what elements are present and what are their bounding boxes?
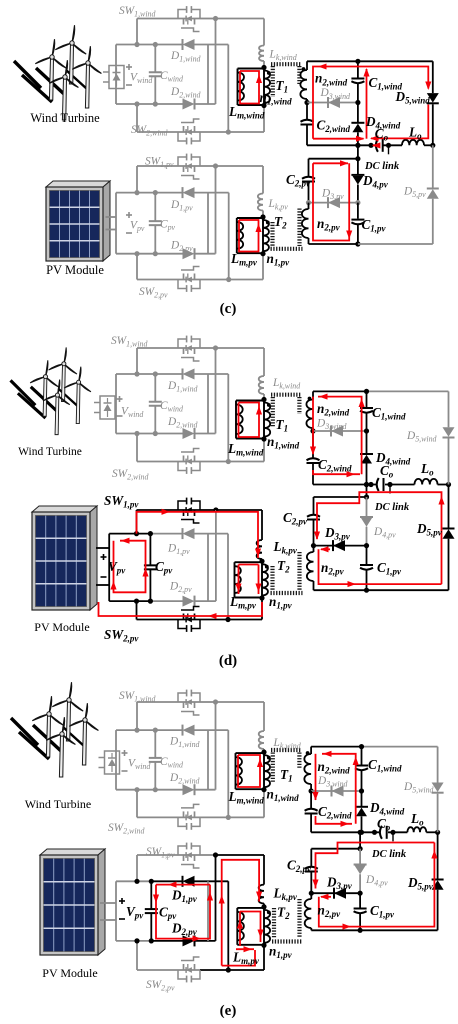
svg-text:Wind Turbine: Wind Turbine: [30, 111, 100, 125]
wire SW1 branch wind d: [136, 348, 138, 374]
wire SW2 row pv d: [137, 619, 179, 621]
capacitor C2 wind out d: [312, 431, 314, 458]
current path pv primary bottom e: [222, 950, 255, 966]
node junction pv c: [134, 251, 139, 256]
wire SW2 branch pv e: [136, 941, 138, 970]
node junction wind d: [134, 371, 139, 376]
node C1pv bottom pv out d: [364, 588, 369, 593]
wire DC rail wind out c: [307, 144, 376, 146]
node n2/D3 wind out d: [310, 428, 315, 433]
svg-text:PV Module: PV Module: [42, 966, 97, 980]
svg-text:(d): (d): [219, 653, 237, 669]
current path wind C2 loop d: [312, 397, 314, 454]
wire SW1 branch wind c: [136, 19, 138, 45]
diode D3pv pv out c: [328, 197, 340, 208]
node junction wind e: [153, 728, 158, 733]
winding n1 primary T1 e: [263, 752, 265, 790]
diode D5pv pv out c: [427, 189, 439, 199]
current path wind out loop e: [322, 754, 356, 824]
capacitor C1pv pv out e: [359, 893, 361, 907]
node junction wind d: [134, 431, 139, 436]
node primary bottom T2 c: [260, 251, 265, 256]
node Lo right wind out c: [430, 143, 435, 148]
node primary bottom T2 d: [259, 595, 264, 600]
PV module icon: [46, 181, 110, 187]
wire PV leads e: [100, 902, 116, 904]
winding n1 primary T1 d: [263, 400, 265, 440]
current path wind D4 up c: [366, 69, 368, 139]
node primary top T1 d: [261, 397, 266, 402]
node junction pv d: [148, 531, 153, 536]
diode D4pv pv out e: [359, 849, 361, 865]
wire Lk to primary T2 e: [263, 904, 265, 907]
wire left rail wind e: [115, 730, 117, 790]
wire D1-SW2 rail wind c: [227, 45, 229, 133]
node Co right wind out c: [386, 143, 391, 148]
diode D4 wind out e: [355, 806, 368, 808]
wire right rail wind d: [207, 374, 209, 434]
node junction wind e: [134, 787, 139, 792]
wire SW1 to node pv c: [200, 165, 216, 167]
node SW1/D2 junction wind e: [213, 699, 218, 704]
wire SW2 branch pv d: [136, 601, 138, 619]
inductor Lk T1 d: [259, 376, 264, 394]
node primary polarity T2 d: [265, 565, 269, 569]
inductor Lo wind out c: [402, 140, 424, 145]
diode D5pv pv out d: [443, 529, 455, 539]
transistor SW1 wind d: [178, 347, 200, 349]
wire D3 row pv pv out e: [311, 892, 360, 894]
capacitor C column wind d: [154, 374, 156, 402]
wire SW1 to node wind c: [200, 18, 216, 20]
node junction wind d: [153, 371, 158, 376]
wire DC rail wind out e: [311, 831, 379, 833]
node PV rail top pv out c: [355, 156, 360, 161]
capacitor C1pv pv out d: [366, 546, 368, 564]
node DC link stub wind out e: [392, 832, 394, 841]
transistor SW2 wind c: [178, 131, 200, 133]
node SW1/D2 junction pv e: [213, 852, 218, 857]
node primary top T2 c: [260, 214, 265, 219]
transistor SW2 pv d: [178, 619, 200, 621]
current path wind DC converge c: [373, 144, 379, 146]
wire Lk to primary T2 c: [262, 211, 264, 218]
node D4/D3 pv out d: [364, 543, 369, 548]
node D4 bottom wind out e: [359, 830, 364, 835]
node DC link stub wind out c: [388, 145, 390, 154]
wire PV bottom rail pv out e: [311, 929, 360, 931]
node Co right wind out d: [387, 482, 392, 487]
capacitor Co wind out c: [376, 139, 378, 152]
capacitor C2 wind out e: [310, 791, 312, 809]
svg-text:(e): (e): [220, 1003, 237, 1019]
wire SW2 branch wind e: [136, 790, 138, 818]
wire mid rail pv d: [215, 510, 217, 601]
capacitor C1 wind out c: [357, 61, 359, 77]
polarity marks V_wind d: [117, 398, 123, 400]
wire primary return pv c: [262, 254, 264, 280]
node n2/D3 wind out e: [309, 788, 314, 793]
node SW2 junction pv e: [226, 967, 231, 972]
node SW1/D2 junction wind d: [213, 345, 218, 350]
wire bottom cell wind d: [116, 433, 155, 435]
capacitor C2 wind out c: [306, 103, 308, 120]
polarity marks V_wind e: [122, 752, 128, 754]
node Co left wind out d: [368, 482, 373, 487]
wire D3 row pv pv out d: [314, 545, 367, 547]
wire SW1 branch pv e: [136, 855, 138, 881]
wire D1-SW2 rail pv e: [227, 881, 229, 970]
node primary polarity T1 d: [267, 403, 271, 407]
wire top rail to Lk T2 c: [216, 165, 264, 167]
current path pv cell loop e2: [156, 885, 210, 939]
wire mid rail pv c: [215, 166, 217, 254]
current loop Lm T1 d: [239, 403, 260, 438]
wire PV bottom rail pv out d: [314, 589, 367, 591]
diode D5pv pv out e: [432, 880, 444, 890]
current loop Lm T1 c: [240, 71, 259, 104]
current path pv Lm left e: [239, 912, 241, 947]
wire Lk to primary T1 d: [263, 394, 265, 400]
diode D2 wind d: [183, 428, 195, 439]
current path pv SW2 path d: [99, 602, 263, 616]
node D4/D3 pv out c: [355, 200, 360, 205]
wire top cell pv d: [109, 533, 150, 535]
wire primary return wind c: [263, 106, 265, 133]
inductor Lm magnetizing T2 d: [235, 561, 263, 563]
wire SW2 branch pv c: [136, 254, 138, 280]
current path wind out loop d: [318, 397, 362, 475]
node SW2 junction wind d: [226, 459, 231, 464]
diode D1 wind c: [183, 39, 195, 50]
wind turbine icon d: [11, 347, 91, 434]
svg-text:Wind Turbine: Wind Turbine: [18, 446, 82, 458]
node D4/D3 pv out e: [358, 891, 363, 896]
current path pv source loop d: [114, 541, 146, 593]
current path pv out loop d: [317, 492, 442, 584]
winding n1 primary T2 d: [261, 561, 263, 598]
svg-text:DC link: DC link: [371, 849, 407, 860]
inductor Lk T2 d: [257, 540, 262, 559]
diode D2 wind e: [183, 784, 195, 795]
wire PV top rail pv out d: [314, 496, 367, 498]
inductor Lk T2 c: [258, 194, 263, 211]
node primary bottom T1 d: [261, 436, 266, 441]
inductor Lm magnetizing T1 c: [238, 68, 265, 70]
transformer core T2 e: [272, 908, 276, 938]
wire mid rail wind d: [215, 348, 217, 434]
node Lo right wind out d: [446, 482, 451, 487]
node junction wind c: [153, 101, 158, 106]
node C2/D3 pv out e: [309, 891, 314, 896]
node Co left wind out e: [372, 830, 377, 835]
wire right rail pv c: [207, 193, 209, 254]
node junction wind c: [134, 101, 139, 106]
node C1 top wind out d: [364, 389, 369, 394]
wire left rail pv e: [115, 881, 117, 941]
diode D3 wind out c: [328, 97, 340, 108]
transistor SW2 pv e: [178, 969, 200, 971]
wire top cell pv c: [116, 192, 155, 194]
node SW2 junction pv d: [225, 617, 230, 622]
inductor Lm magnetizing T1 e: [236, 752, 265, 754]
wire bottom cell pv e: [116, 940, 151, 942]
capacitor C column wind e: [154, 730, 156, 758]
node PV rail top pv out d: [364, 494, 369, 499]
current path pv Lm bot e: [236, 948, 254, 950]
winding n2pv pv out d: [313, 546, 315, 552]
node junction pv c: [134, 190, 139, 195]
capacitor C1pv pv out c: [357, 203, 359, 219]
wind turbine icon: [14, 25, 101, 120]
wire left rail pv c: [115, 193, 117, 254]
node primary bottom T1 e: [261, 787, 266, 792]
diode D5 wind out d: [443, 427, 455, 437]
transistor SW1 pv c: [178, 165, 200, 167]
capacitor C column pv d: [149, 534, 151, 566]
wire right rail wind out d: [448, 391, 450, 427]
wire primary return pv d: [261, 598, 263, 620]
wire DC to PV rail pv out e: [359, 832, 361, 848]
node C1/D3 wind out e: [359, 788, 364, 793]
node primary top T2 d: [259, 559, 264, 564]
node SW1/D2 junction wind c: [213, 16, 218, 21]
wire PV top rail pv out e: [311, 848, 360, 850]
svg-text:DC link: DC link: [374, 502, 410, 513]
node Co left wind out c: [368, 143, 373, 148]
node primary bottom T1 c: [261, 103, 266, 108]
node junction pv e: [134, 879, 139, 884]
node C1pv bottom pv out c: [355, 241, 360, 246]
capacitor C1 wind out d: [366, 391, 368, 407]
wire D3 row wind out c: [307, 102, 358, 104]
current path pv Lm loop e: [240, 912, 261, 943]
current path pv n1 down d: [258, 565, 260, 595]
node D4 bottom wind out c: [355, 143, 360, 148]
diode D4pv pv out c: [357, 159, 359, 175]
wire PV right rail pv out c: [432, 199, 434, 244]
wire SW1 to node wind e: [200, 701, 216, 703]
winding n1 primary T1 c: [263, 68, 265, 106]
wire bottom cell wind c: [116, 103, 155, 105]
svg-text:(c): (c): [220, 301, 237, 317]
svg-text:PV Module: PV Module: [34, 620, 89, 634]
wire SW1 to node pv e: [200, 854, 216, 856]
diode D4 wind out d: [360, 453, 373, 455]
winding n1 primary T2 c: [262, 217, 264, 254]
wire Lk to primary T1 e: [263, 749, 265, 752]
diode D4pv pv out d: [366, 497, 368, 517]
capacitor C1 wind out e: [361, 747, 363, 765]
current path pv SW1 path d: [137, 512, 259, 558]
wire DC rail wind out d: [313, 484, 376, 486]
current path wind C2 bottom d: [313, 470, 360, 474]
capacitor C column pv e: [150, 881, 152, 909]
wire SW2 branch wind d: [136, 434, 138, 462]
wire mid rail wind c: [215, 19, 217, 105]
polarity marks V_pv d: [101, 556, 107, 558]
wind turbine icon e: [11, 682, 98, 777]
wire SW2 branch wind c: [136, 104, 138, 132]
wire bottom cell pv d: [109, 600, 150, 602]
wire DC to PV rail pv out c: [357, 145, 359, 158]
wire primary return pv e: [263, 945, 265, 970]
wire top rail to Lk T2 d: [216, 509, 262, 511]
current loop Lm T1 e: [238, 755, 260, 787]
winding n2 secondary wind out e: [310, 747, 312, 754]
inductor Lm magnetizing T1 d: [236, 400, 264, 402]
diode D5 wind out e: [432, 783, 444, 793]
winding n2 secondary wind out d: [312, 391, 314, 399]
transformer core T2 c: [270, 222, 274, 246]
node primary bottom T2 e: [261, 943, 266, 948]
node Lo right wind out e: [435, 830, 440, 835]
wire PV bottom rail pv out c: [309, 243, 358, 245]
wire D3 row wind out d: [313, 430, 367, 432]
node D4 bottom wind out d: [364, 482, 369, 487]
transistor SW1 pv d: [178, 509, 200, 511]
current path wind C2 bot e: [316, 816, 353, 824]
node junction pv c: [153, 251, 158, 256]
wire SW2 row wind d: [137, 461, 178, 463]
current path pv out loop c right: [313, 163, 349, 240]
node C2/D3 pv out c: [306, 200, 311, 205]
winding n2pv pv out c: [308, 203, 310, 209]
inductor Lm magnetizing T2 c: [237, 217, 263, 219]
transistor SW2 wind e: [178, 816, 200, 818]
wire DC to PV rail pv out d: [366, 485, 368, 498]
node junction wind c: [153, 42, 158, 47]
current path pv n2 red e: [319, 843, 435, 927]
node junction pv e: [134, 938, 139, 943]
node primary polarity T1 c: [267, 71, 271, 75]
current path wind C2 to D4 c: [313, 138, 364, 140]
node junction pv d: [134, 531, 139, 536]
rectifier box wind d: [100, 396, 115, 419]
node Co right wind out e: [390, 830, 395, 835]
node junction wind c: [134, 42, 139, 47]
inductor Lo wind out d: [415, 479, 438, 485]
diode D1 wind e: [183, 725, 195, 736]
node C1pv bottom pv out e: [358, 928, 363, 933]
diode D2 pv d: [183, 596, 195, 607]
node n2 polarity wind out c: [302, 67, 306, 71]
wire top rail to Lk T1 e: [216, 701, 265, 703]
wire SW2 row pv c: [137, 279, 178, 281]
diode D1 wind d: [183, 369, 195, 380]
wire left rail pv d: [108, 534, 110, 602]
node junction wind e: [134, 728, 139, 733]
wire top cell wind d: [116, 373, 155, 375]
wire mid rail wind e: [215, 702, 217, 790]
transistor SW1 pv e: [178, 854, 200, 856]
polarity marks V_pv c: [126, 214, 132, 216]
node primary top T1 c: [261, 65, 266, 70]
wire SW2 row pv e: [137, 969, 178, 971]
winding n1 primary T2 e: [263, 907, 265, 945]
current path wind out loop c: [313, 67, 428, 139]
capacitor C2pv pv out d: [313, 497, 315, 515]
node primary top T2 e: [261, 904, 266, 909]
inductor Lk T1 c: [259, 46, 264, 62]
inductor Lm magnetizing T2 e: [237, 907, 264, 909]
wire Lk to primary T1 c: [263, 61, 265, 68]
node primary polarity T2 c: [266, 221, 270, 225]
wire output top rail wind out d: [313, 390, 367, 392]
wire SW1 branch wind e: [136, 702, 138, 730]
node SW1/D2 junction pv d: [213, 507, 218, 512]
transformer core T1 c: [271, 66, 275, 97]
wire output top rail wind out c: [307, 60, 358, 62]
wire PV right rail pv out e: [437, 890, 439, 931]
current path pv Lm top link d: [239, 564, 259, 566]
wire D1-SW2 rail wind d: [227, 374, 229, 462]
wire bottom cell wind e: [116, 789, 155, 791]
transistor SW1 wind c: [178, 18, 200, 20]
capacitor C2pv pv out c: [308, 159, 310, 177]
wire PV top rail pv out c: [309, 158, 358, 160]
capacitor C column wind c: [154, 45, 156, 73]
node junction pv e: [149, 879, 154, 884]
svg-text:DC link: DC link: [364, 161, 400, 172]
capacitor Co wind out d: [377, 478, 379, 491]
wire left rail wind c: [115, 45, 117, 105]
polarity marks V_wind c: [126, 66, 132, 68]
node SW2 junction wind c: [226, 129, 231, 134]
wire output top rail wind out e: [311, 746, 361, 748]
diode D2 pv e: [183, 935, 195, 946]
wire PV leads c: [106, 216, 117, 218]
inductor Lo wind out e: [407, 827, 426, 832]
node junction wind e: [153, 787, 158, 792]
diode D2 pv c: [183, 248, 195, 259]
current path wind C2 red e: [315, 754, 317, 800]
transistor SW2 wind d: [178, 461, 200, 463]
wire right rail wind out c: [432, 61, 434, 93]
node primary polarity T1 e: [267, 756, 271, 760]
svg-text:Wind Turbine: Wind Turbine: [25, 797, 92, 811]
node primary polarity T2 e: [267, 911, 271, 915]
diode D1 pv c: [183, 187, 195, 198]
inductor Lk T1 e: [259, 731, 264, 749]
transformer core T2 d: [270, 566, 274, 590]
wire SW1 branch pv c: [136, 166, 138, 193]
wire top cell wind e: [116, 729, 155, 731]
current path pv out loop c: [313, 162, 348, 164]
wire D1-SW2 rail pv c: [228, 193, 230, 280]
svg-text:PV Module: PV Module: [46, 263, 104, 277]
diode D3 wind out e: [332, 786, 344, 797]
current path pv D3 red d: [321, 548, 330, 550]
current path pv cell loop e: [156, 884, 210, 886]
diode D1 pv d: [183, 528, 195, 539]
current path pv Lm down d: [238, 565, 240, 595]
wire D3 row pv pv out c: [309, 202, 358, 204]
node primary top T1 e: [261, 750, 266, 755]
current path wind D5 to DC c: [371, 105, 428, 139]
wire primary return wind e: [263, 790, 265, 818]
inductor Lk T2 e: [259, 885, 264, 904]
node SW2 junction pv c: [226, 277, 231, 282]
diode D1 pv e: [183, 876, 195, 887]
node SW1/D2 junction pv c: [213, 163, 218, 168]
wire right rail wind e: [207, 730, 209, 790]
wire SW2 row wind c: [137, 131, 178, 133]
rectifier box wind e: [105, 751, 120, 774]
wire top rail to Lk T1 d: [216, 347, 265, 349]
node junction pv e: [149, 938, 154, 943]
node C1/D3 wind out c: [355, 100, 360, 105]
